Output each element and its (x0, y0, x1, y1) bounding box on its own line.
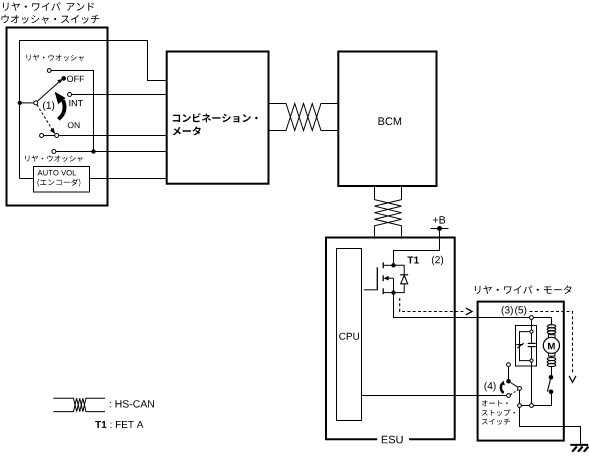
label (2) (432, 256, 443, 265)
wire to AUTO VOL (20, 178, 34, 180)
breaker branch (520, 332, 530, 361)
HS-CAN twisted pair: meter to BCM (270, 104, 338, 131)
label ESU (382, 436, 403, 444)
INT contact (68, 93, 72, 97)
label BCM (379, 117, 402, 125)
HS-CAN twisted pair: BCM to ESU (375, 187, 402, 236)
choke coil lower (547, 356, 556, 367)
dashed flow (5) (530, 312, 573, 375)
motor M (548, 335, 555, 338)
label INT (69, 100, 83, 106)
capacitor (531, 333, 533, 343)
auto-stop switch (4) (507, 363, 511, 367)
ground (570, 444, 588, 446)
wire (520, 394, 552, 406)
CPU box (337, 249, 362, 421)
wire (51, 71, 93, 152)
lever (511, 383, 519, 388)
title: rear wiper and washer switch (3, 2, 94, 11)
dashed lever to ON (37, 105, 52, 130)
AUTO VOL encoder box (34, 167, 90, 193)
wire (531, 319, 533, 330)
wire ON to meter (59, 135, 166, 137)
FET T1 (364, 262, 408, 295)
label T1 (407, 257, 419, 264)
legend: T1 FET A (95, 421, 143, 428)
pivot contact (34, 101, 38, 105)
wire: T1 source to motor (394, 293, 531, 318)
ON contacts (40, 134, 44, 138)
rear wiper motor box (478, 302, 564, 441)
ESU box (326, 238, 455, 440)
label: rear washer (bottom) (25, 155, 82, 162)
auto-stop contact (motor side) (549, 375, 554, 380)
label: auto stop switch (482, 400, 508, 406)
wire INT to meter (72, 94, 166, 96)
wire washer to meter (56, 151, 166, 153)
wire pivot down (519, 390, 521, 403)
legend: HS-CAN twisted pair symbol (53, 398, 105, 411)
+B supply terminal (431, 228, 449, 230)
wire +B to T1 drain (394, 229, 440, 264)
rotation arrow (1) (58, 100, 64, 119)
choke coil upper (547, 318, 556, 335)
label (3)(5) (502, 306, 513, 316)
label: rear wiper motor (475, 285, 572, 294)
rotation arrow (4) (501, 384, 504, 392)
label OFF (67, 76, 84, 82)
switch lever to OFF (37, 81, 60, 102)
dashed flow arrow to (3)(5) (400, 298, 466, 312)
label: rear washer (top) (27, 54, 84, 61)
wire (533, 317, 551, 320)
noise suppressor box (516, 326, 537, 367)
rear wiper and washer switch assembly box (7, 28, 108, 206)
switch common wire to meter (20, 102, 34, 104)
wire: CPU to auto-stop switch (361, 395, 506, 397)
label ON (68, 122, 80, 128)
label (4) (484, 382, 495, 392)
label (1) (43, 101, 54, 111)
wire (551, 366, 553, 375)
junction (91, 149, 95, 153)
lever arrowhead (57, 79, 63, 83)
combination meter box (167, 52, 269, 184)
motor feed terminal (530, 316, 534, 320)
dashed lever (510, 390, 518, 395)
BCM box (338, 52, 436, 187)
OFF contact (61, 76, 66, 81)
washer contact top (47, 69, 51, 73)
wire AUTO VOL to meter (90, 178, 166, 180)
wire cap to bottom terminal (531, 362, 533, 403)
wire to ground (520, 407, 581, 444)
wire (44, 135, 55, 137)
washer contact bottom (52, 150, 56, 154)
